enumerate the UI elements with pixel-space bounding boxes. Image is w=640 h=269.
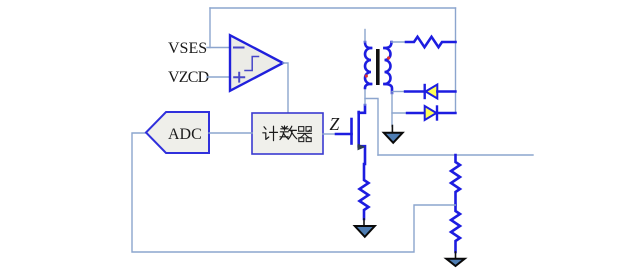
resistor R4 divider bottom	[451, 205, 460, 252]
counter block 计数器	[252, 113, 323, 154]
wire drain tap to divider bus	[365, 99, 378, 156]
transformer T1 secondary winding	[385, 42, 393, 93]
ground arrow at secondary return	[384, 126, 403, 143]
wire feedback top horizontal	[210, 7, 456, 9]
wire VSES to comparator minus input	[207, 47, 230, 49]
transistor Q1 MOSFET	[336, 105, 366, 164]
wire divider junction to bottom loop	[132, 133, 456, 252]
wire counter to gate node Z	[323, 133, 337, 135]
wire tap to diode D2	[392, 112, 407, 114]
diode D1 (cathode left)	[405, 85, 456, 99]
counter label 计数器 (drawn strokes)	[263, 126, 312, 142]
wire VZCD to comparator plus input	[207, 76, 230, 78]
secondary polarity dot	[387, 56, 390, 59]
wire secondary bottom vertical	[391, 93, 393, 127]
wire tap to diode D1	[392, 91, 406, 93]
wire secondary top to resistor	[392, 41, 407, 43]
wire stub above primary	[364, 30, 366, 43]
transformer core	[376, 49, 380, 85]
wire comparator output to counter	[283, 63, 288, 112]
svg-text:Z: Z	[330, 114, 340, 134]
transformer T1 primary winding	[365, 42, 371, 88]
diode D2 (cathode right)	[407, 106, 456, 120]
wire horizontal bus to divider	[378, 154, 533, 156]
op-amp U1 comparator with hysteresis	[230, 35, 283, 91]
wire drain to primary winding	[364, 86, 366, 105]
primary polarity dot	[365, 74, 368, 77]
ground under divider	[446, 252, 464, 266]
wire ADC to counter	[209, 132, 252, 134]
resistor R2 below MOSFET source	[360, 164, 369, 219]
wire feedback left vertical	[209, 8, 211, 48]
resistor R3 divider top	[451, 155, 460, 205]
svg-text:VSES: VSES	[168, 40, 207, 57]
resistor R1 snubber	[406, 37, 456, 47]
wire feedback right vertical	[455, 8, 457, 113]
ADC block	[146, 112, 209, 153]
svg-text:ADC: ADC	[168, 126, 202, 143]
svg-text:VZCD: VZCD	[168, 69, 209, 86]
ground under R2	[355, 219, 375, 237]
